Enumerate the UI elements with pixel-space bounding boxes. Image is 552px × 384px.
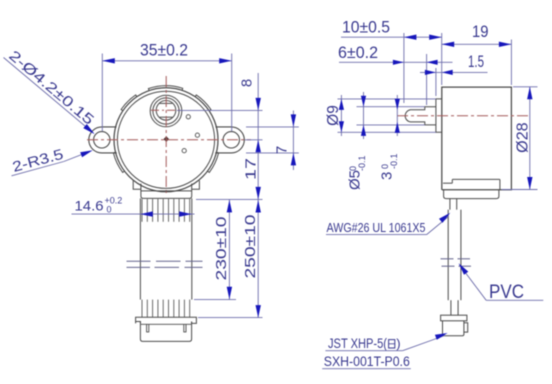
dim 7 line: [292, 111, 294, 171]
svg-text:6±0.2: 6±0.2: [338, 44, 378, 62]
svg-text:35±0.2: 35±0.2: [140, 41, 188, 60]
shaft circle with flats: [156, 101, 176, 121]
svg-text:-0.1: -0.1: [389, 153, 399, 169]
connector inner line: [141, 323, 191, 325]
dim 3 line+arrows: [396, 95, 398, 136]
shaft boss outer circle: [150, 95, 182, 127]
svg-text:19: 19: [472, 23, 489, 41]
svg-text:3: 3: [379, 172, 396, 180]
svg-text:230±10: 230±10: [213, 217, 230, 281]
svg-text:7: 7: [274, 146, 291, 154]
dim 3 text: [379, 153, 400, 180]
svg-text:8: 8: [239, 79, 256, 87]
side cable lower stub: [450, 300, 452, 315]
svg-text:0: 0: [107, 205, 112, 215]
dim 250 arrows: [256, 200, 261, 213]
leader 2-Φ4.2±0.15: [4, 58, 92, 132]
connector body front: [140, 322, 191, 342]
side cable: [447, 210, 449, 301]
dim Φ5 ext lines: [357, 106, 425, 108]
svg-text:PVC: PVC: [489, 282, 524, 303]
svg-text:1.5: 1.5: [468, 53, 484, 71]
svg-text:Ø5: Ø5: [347, 170, 364, 190]
ext boss face: [435, 68, 437, 96]
crimp bump upper-right: [195, 95, 211, 111]
side bottom cap: [444, 190, 499, 199]
leader 2-R3.5: [12, 162, 64, 176]
dim Φ5 line+arrows: [363, 92, 365, 139]
svg-text:): ): [396, 336, 400, 351]
ext shaft center: [177, 109, 263, 111]
horizontal centerline: [87, 139, 251, 141]
cable break marks front: [127, 260, 151, 262]
ext cable end: [194, 299, 236, 301]
left mounting hole: [94, 132, 110, 148]
dim 7 ext lines: [246, 126, 299, 128]
svg-text:10±0.5: 10±0.5: [342, 18, 390, 36]
motor body outer circle: [114, 88, 218, 192]
dim chain vertical line x=258: [257, 73, 259, 318]
dim Φ28 line: [529, 87, 531, 190]
crimp bump lower-right: [208, 152, 219, 172]
ext center y: [245, 139, 263, 141]
dim 1.5 line: [420, 71, 488, 73]
crimp bump upper-left: [121, 95, 137, 111]
motor body inner circle: [117, 91, 214, 188]
side body step lines: [452, 178, 500, 180]
right mounting tab: [215, 127, 244, 153]
ext body face: [441, 33, 443, 85]
svg-text:Ø9: Ø9: [325, 105, 342, 126]
side boss: [436, 99, 442, 132]
svg-text:250±10: 250±10: [242, 215, 259, 279]
dim 8 arrows: [256, 98, 261, 111]
dim Φ5 text: [347, 155, 368, 190]
side body rectangle: [442, 87, 512, 190]
wire housing left wing: [133, 181, 141, 190]
svg-text:SXH-001T-P0.6: SXH-001T-P0.6: [324, 354, 410, 369]
crimp bump top: [148, 86, 182, 91]
upper wire hatch: [141, 199, 143, 222]
dim 17 arrow bottom: [256, 187, 261, 200]
lower wire hatch: [141, 300, 143, 318]
svg-text:AWG#26 UL 1061X5: AWG#26 UL 1061X5: [327, 220, 426, 235]
wire housing cup: [141, 184, 192, 199]
connector pins: [147, 324, 149, 332]
side connector latch: [464, 323, 468, 332]
vertical centerline: [165, 76, 167, 196]
side connector body: [443, 321, 464, 336]
side cable break: [441, 258, 454, 260]
ext body rear: [510, 40, 512, 86]
svg-text:17: 17: [243, 158, 260, 180]
dim Φ9 line: [340, 95, 342, 136]
dim 35±0.2 line: [102, 60, 231, 62]
dim 14.6 line: [72, 213, 195, 215]
screw rivet circles: [186, 115, 190, 119]
dim 19 line: [442, 43, 512, 45]
ext housing bottom: [196, 198, 263, 200]
center mark: [163, 136, 169, 142]
svg-text:Ø28: Ø28: [515, 122, 532, 153]
side cable exit stub: [449, 199, 451, 210]
connector flange front: [136, 317, 197, 323]
svg-text:14.6: 14.6: [75, 198, 104, 214]
dim 10±0.5 line: [341, 36, 442, 38]
ext shaft tip: [403, 33, 405, 103]
right mounting hole: [223, 132, 239, 148]
left mounting tab: [89, 127, 117, 153]
ribbon cable edges: [139, 198, 141, 299]
shaft horizontal centerline: [151, 109, 182, 111]
dim 230 line: [228, 199, 230, 299]
ext flat end: [426, 54, 428, 105]
wire housing right wing: [192, 181, 200, 190]
svg-text:-0.1: -0.1: [357, 155, 367, 171]
dim Φ9 ext lines: [338, 98, 436, 100]
side connector flange: [441, 315, 467, 321]
dim 35±0.2 extension lines: [101, 54, 103, 132]
side centerline: [397, 115, 529, 117]
wire housing mouth line: [141, 190, 192, 192]
dim Φ28 ext lines: [513, 86, 538, 88]
svg-text:JST XHP-5(: JST XHP-5(: [328, 336, 387, 351]
shaft boss inner circle: [153, 98, 179, 124]
crimp bump lower-left: [113, 152, 124, 172]
dim 6±0.2 line: [339, 61, 453, 63]
side shaft: [405, 107, 436, 125]
ext connector top: [198, 317, 263, 319]
